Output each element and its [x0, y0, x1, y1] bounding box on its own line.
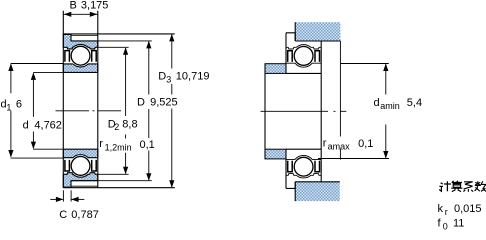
dimension d1 line [10, 64, 12, 157]
ra max line [339, 41, 341, 160]
da extension bottom [318, 158, 389, 160]
shaft end face [264, 64, 266, 159]
D2 extension top [98, 46, 129, 48]
centerline left view [56, 110, 122, 112]
shield right (right view top) [315, 51, 320, 62]
flange OD top line / D3 extension [63, 33, 175, 35]
centerline right view [261, 110, 347, 112]
C arrow right [72, 198, 85, 200]
shield left (right view top) [288, 51, 293, 62]
d extension bottom [33, 148, 63, 150]
inner ring shoulder edge (right view top) [286, 63, 321, 67]
dimension d line [32, 73, 34, 148]
ball (left view top) [71, 46, 90, 65]
dimension D3 line [171, 35, 173, 187]
svg-text:B3,175: B3,175 [70, 0, 109, 11]
bearing left face (right view) [285, 33, 287, 189]
shaft shoulder top [265, 64, 286, 74]
shield left (right view bottom) [288, 161, 293, 172]
dimension B arrow left [64, 12, 72, 17]
bore contact line bottom [286, 148, 321, 150]
ball (right view bottom) [294, 157, 313, 176]
svg-text:D310,719: D310,719 [158, 71, 209, 85]
bore contact line top [286, 72, 321, 74]
housing block top [295, 22, 340, 41]
flange bottom (right view) [286, 182, 295, 189]
dimension D2 line [125, 48, 127, 174]
flange top (right view) [286, 33, 295, 41]
outer ring raceway edge (right view top) [286, 45, 321, 49]
ball (right view top) [294, 47, 313, 66]
svg-text:d4,762: d4,762 [23, 119, 62, 131]
left view inner ring (bottom section) [63, 149, 98, 158]
OD bottom line / D extension [71, 180, 152, 182]
inner ring shoulder edge (right view bottom) [286, 155, 321, 159]
housing bore line top [295, 40, 340, 42]
d1 extension bottom [11, 157, 64, 159]
shield left (left view bottom) [65, 160, 70, 171]
left face / B extension line [62, 11, 64, 188]
right face / B extension line [97, 11, 99, 188]
dimension B arrow right [90, 12, 98, 17]
flange OD bottom line / D3 extension [63, 187, 175, 189]
flange step bottom [70, 181, 72, 188]
shield right (right view bottom) [315, 161, 320, 172]
housing face line bottom [294, 182, 296, 201]
label calculation factors (Chinese) [439, 181, 486, 192]
D2 extension bottom [98, 173, 129, 175]
OD top line / D extension [71, 40, 152, 42]
C extension right [70, 190, 72, 201]
shield right (left view top) [92, 51, 97, 62]
housing bore line bottom [295, 181, 340, 183]
notch top line [71, 34, 98, 36]
left view outer ring with flange (top section) [63, 34, 98, 49]
svg-text:D28,8: D28,8 [108, 118, 138, 132]
shaft shoulder bottom [265, 149, 286, 159]
shield left (left view top) [65, 51, 70, 62]
notch bottom line [71, 185, 98, 187]
shield right (left view bottom) [92, 160, 97, 171]
housing face line top [294, 22, 296, 41]
dimension D line [148, 42, 150, 180]
flange step top [70, 34, 72, 41]
svg-text:C0,787: C0,787 [59, 209, 99, 221]
da extension top [340, 63, 388, 65]
C arrow left [50, 198, 63, 200]
bearing right face (right view) [320, 41, 322, 182]
C extension left [62, 190, 64, 201]
outer ring raceway edge (right view bottom) [286, 174, 321, 178]
ball (left view bottom) [71, 157, 90, 176]
d extension top [33, 71, 63, 73]
housing block bottom [295, 182, 340, 201]
dimension da line [385, 64, 387, 157]
left view outer ring with flange (bottom section) [63, 173, 98, 188]
dimension B line [63, 13, 98, 15]
d1 extension top [11, 63, 64, 65]
left view inner ring (top section) [63, 64, 98, 73]
svg-text:D9,525: D9,525 [137, 97, 178, 109]
